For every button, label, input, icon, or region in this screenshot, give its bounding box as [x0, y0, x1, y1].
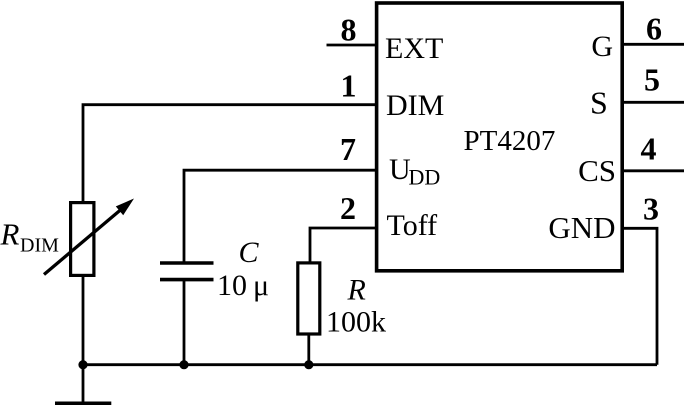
svg-text:GND: GND [548, 210, 615, 245]
pin 7 label UDD [389, 153, 440, 189]
node junction dot C/bottom rail [179, 360, 188, 369]
svg-text:6: 6 [646, 11, 662, 47]
svg-text:3: 3 [643, 191, 659, 227]
wire pin 6 stub [622, 43, 684, 46]
svg-text:4: 4 [641, 131, 657, 167]
svg-text:5: 5 [644, 62, 660, 98]
wire pin 5 stub [622, 101, 684, 104]
svg-text:DIM: DIM [20, 234, 59, 256]
wire bottom rail [83, 363, 657, 366]
svg-text:Toff: Toff [387, 209, 438, 242]
node junction dot R/bottom rail [304, 360, 313, 369]
resistor R [298, 263, 320, 334]
wire capacitor bottom [183, 280, 186, 365]
svg-text:10 μ: 10 μ [217, 269, 269, 302]
svg-text:PT4207: PT4207 [464, 125, 556, 157]
wire R_DIM bottom [82, 276, 85, 365]
svg-text:S: S [590, 85, 608, 121]
svg-text:2: 2 [340, 190, 356, 226]
svg-text:CS: CS [578, 153, 616, 188]
node junction dot RDIM/bottom rail [78, 360, 87, 369]
capacitor C plates [160, 263, 214, 280]
wire pin 4 stub [622, 169, 684, 172]
wire pin 8 stub [327, 44, 377, 47]
svg-text:1: 1 [341, 68, 357, 104]
wire pin 1 DIM to RDIM top [83, 105, 377, 202]
svg-text:EXT: EXT [385, 32, 443, 65]
svg-text:G: G [591, 30, 613, 63]
ground [55, 365, 111, 404]
svg-text:DD: DD [409, 164, 441, 189]
label R_DIM [0, 217, 59, 257]
svg-text:8: 8 [341, 12, 357, 48]
svg-text:R: R [347, 274, 366, 307]
svg-text:7: 7 [340, 131, 356, 167]
wire pin 7 UDD to capacitor C top [184, 170, 377, 262]
svg-text:R: R [0, 217, 20, 252]
IC U1 PT4207 body [377, 3, 623, 271]
svg-text:DIM: DIM [386, 89, 444, 122]
wire resistor R bottom [307, 334, 310, 365]
wire pin 2 Toff to resistor R top [310, 228, 377, 263]
wire pin 3 GND down to bottom rail [622, 228, 657, 364]
svg-text:100k: 100k [326, 306, 386, 339]
svg-text:C: C [239, 236, 260, 269]
resistor R_DIM (variable) [44, 199, 134, 276]
